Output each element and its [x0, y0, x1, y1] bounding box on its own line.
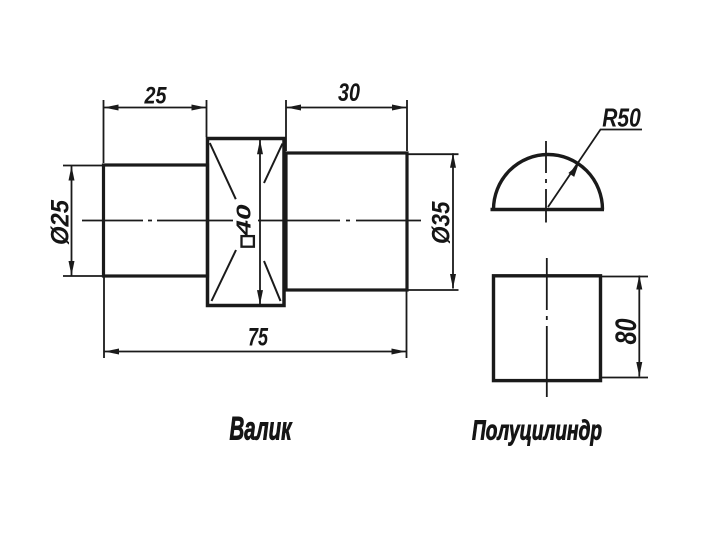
- dim text sq40 rotated: square symbol + 40: [234, 205, 256, 247]
- svg-text:Ø25: Ø25: [46, 199, 74, 245]
- svg-text:80: 80: [610, 318, 643, 344]
- arrow dim25 right: [192, 105, 207, 111]
- flat-surface diagonal bottom-right: [264, 261, 281, 301]
- dim 80 line: [638, 276, 640, 377]
- flat-surface diagonal top-left: [210, 143, 236, 199]
- right cylinder body (d35): [286, 153, 407, 290]
- dim d25 line: [71, 166, 73, 276]
- arrow d25 bottom: [69, 261, 75, 276]
- dim 30 extension lines: [286, 100, 407, 151]
- svg-text:Валик: Валик: [230, 410, 293, 446]
- svg-text:75: 75: [248, 324, 269, 352]
- arrow sq40 top: [257, 140, 263, 155]
- arrow R50 on leader: [568, 164, 578, 177]
- dim d35 line: [452, 153, 454, 288]
- half-cylinder top view arc: [494, 155, 603, 210]
- dim d25 extension lines: [63, 166, 102, 277]
- arrow dim30 left: [287, 105, 302, 111]
- half-cylinder front view centerline: [546, 258, 548, 397]
- flat-surface diagonal top-right: [264, 144, 283, 184]
- arrow d35 bottom: [450, 274, 456, 289]
- dim 30 line: [287, 107, 407, 109]
- dim 80 extension lines: [601, 277, 648, 378]
- arrow dim80 top: [636, 275, 642, 290]
- middle square section body (sq40): [208, 139, 285, 306]
- dim 75 extension lines: [104, 277, 407, 358]
- svg-text:40: 40: [234, 205, 256, 237]
- left cylinder body (d25): [104, 165, 208, 276]
- dim 25 line: [104, 107, 206, 109]
- shaft axis centerline: [82, 220, 233, 222]
- half-cylinder front view rectangle: [494, 276, 601, 381]
- dim sq40 line inside square: [259, 140, 261, 305]
- arrow dim75 left: [105, 349, 120, 355]
- R50 leader line: [548, 130, 642, 208]
- dim 75 line: [105, 351, 407, 353]
- arrow dim80 bottom: [636, 362, 642, 377]
- half-cylinder flat base line: [491, 208, 605, 211]
- svg-text:25: 25: [144, 82, 167, 109]
- arrow dim30 right: [392, 105, 407, 111]
- arrow dim75 right: [392, 349, 407, 355]
- dim d35 extension lines: [408, 154, 459, 290]
- arrow sq40 bottom: [257, 290, 263, 305]
- svg-text:30: 30: [338, 79, 360, 107]
- flat-surface diagonal bottom-left: [212, 250, 237, 301]
- arrow dim25 left: [104, 105, 119, 111]
- dim 25 extension lines: [104, 100, 207, 163]
- arrow d35 top: [450, 153, 456, 168]
- svg-text:Полуцилиндр: Полуцилиндр: [472, 414, 602, 445]
- svg-text:R50: R50: [602, 103, 641, 133]
- svg-text:Ø35: Ø35: [428, 200, 456, 243]
- half-cylinder top view centerline: [545, 141, 547, 223]
- arrow d25 top: [69, 166, 75, 181]
